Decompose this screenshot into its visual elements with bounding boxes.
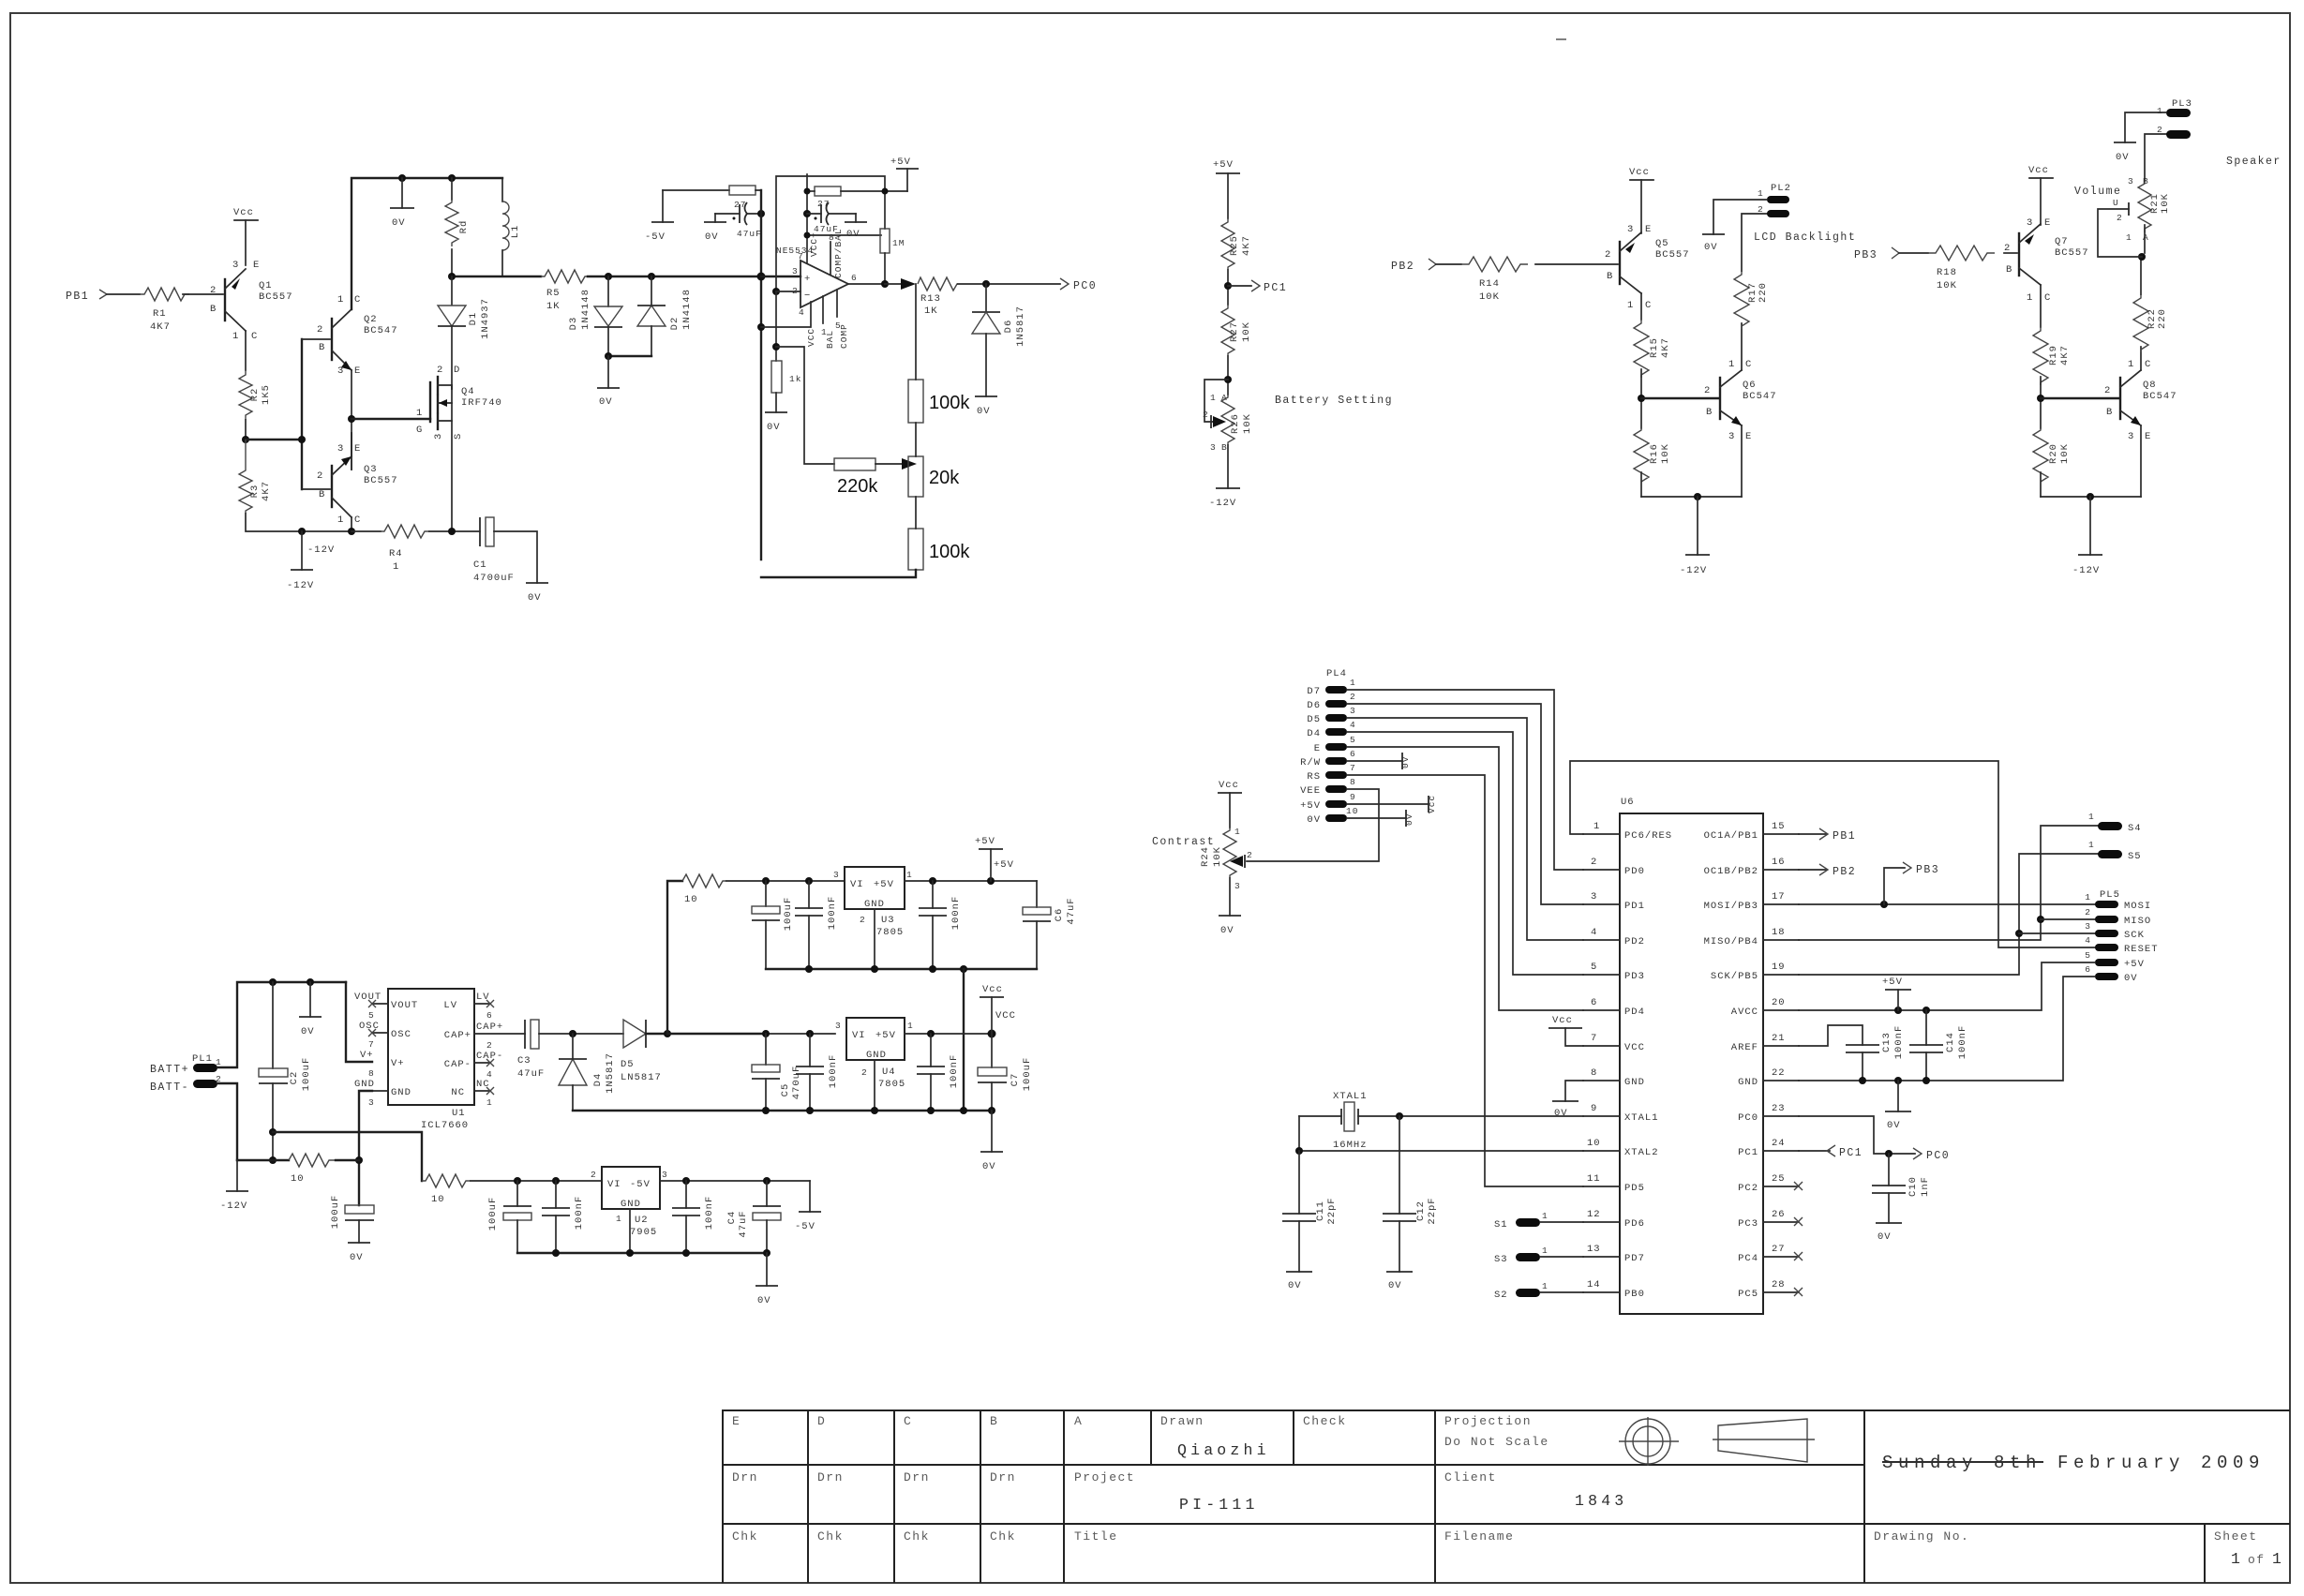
- svg-text:7: 7: [1591, 1033, 1597, 1044]
- opamp pin7 VCC+: [806, 174, 808, 263]
- svg-text:1: 1: [1758, 188, 1764, 199]
- capacitor 100nF (7905 out): [685, 1181, 687, 1208]
- capacitor C13 100nF: [1846, 1044, 1879, 1046]
- svg-text:A: A: [1221, 393, 1228, 403]
- U1 pin VOUT 5: [372, 1003, 388, 1005]
- wire -input branch down to 1k: [775, 291, 777, 361]
- wire E to PD4: [1347, 747, 1583, 1010]
- node PB1 output arrow: [1799, 833, 1826, 835]
- ground -12V (battery): [236, 1160, 238, 1191]
- wire Q6 emitter to rail: [1741, 425, 1743, 497]
- svg-text:1: 1: [232, 331, 239, 342]
- inductor L1: [501, 178, 503, 201]
- svg-text:47uF: 47uF: [737, 229, 762, 239]
- wire C2 bottom down: [272, 1083, 274, 1160]
- svg-text:Vcc: Vcc: [1219, 780, 1239, 791]
- wire pot to -12V: [1227, 445, 1229, 488]
- svg-text:Vcc: Vcc: [1629, 167, 1650, 178]
- U1 pin OSC 7: [372, 1032, 388, 1034]
- svg-text:4K7: 4K7: [261, 481, 272, 501]
- svg-text:PC4: PC4: [1738, 1253, 1758, 1264]
- svg-text:R3: R3: [249, 485, 261, 499]
- svg-text:E: E: [2044, 217, 2051, 229]
- svg-text:C3: C3: [517, 1055, 531, 1066]
- title block column B/A: [1063, 1410, 1065, 1583]
- svg-text:1: 1: [2027, 292, 2033, 304]
- svg-text:7: 7: [1350, 763, 1356, 773]
- svg-text:0V: 0V: [1400, 756, 1411, 768]
- svg-text:PC0: PC0: [1073, 280, 1097, 292]
- svg-text:Client: Client: [1444, 1470, 1497, 1484]
- title block column E/D: [807, 1410, 809, 1583]
- resistor R16 10K: [1634, 428, 1649, 482]
- svg-text:PC6/RES: PC6/RES: [1624, 830, 1672, 842]
- svg-text:RESET: RESET: [2124, 944, 2159, 955]
- svg-text:4700uF: 4700uF: [473, 573, 515, 584]
- svg-text:3: 3: [2027, 217, 2033, 229]
- svg-text:U3: U3: [881, 915, 895, 926]
- wire Q6 collector to R17: [1741, 323, 1743, 370]
- svg-text:Chk: Chk: [817, 1529, 844, 1544]
- svg-text:10K: 10K: [1937, 280, 1957, 291]
- svg-text:PD1: PD1: [1624, 901, 1645, 912]
- wire Q7 collector to R19: [2040, 285, 2042, 327]
- svg-text:-5V: -5V: [795, 1221, 815, 1232]
- capacitor 100nF (U4 out): [930, 1034, 932, 1066]
- svg-text:RS: RS: [1307, 771, 1321, 783]
- svg-text:16: 16: [1772, 857, 1786, 868]
- svg-text:5: 5: [368, 1010, 375, 1021]
- svg-text:BC557: BC557: [2055, 247, 2089, 259]
- ground 0V (100uF): [348, 1242, 370, 1244]
- svg-text:22pF: 22pF: [1326, 1197, 1338, 1224]
- U6 right pin names: [1704, 830, 1758, 1300]
- svg-text:VCC: VCC: [1624, 1042, 1645, 1053]
- svg-text:3: 3: [1728, 431, 1735, 442]
- svg-text:Q4: Q4: [461, 386, 475, 397]
- svg-text:E: E: [1645, 224, 1652, 235]
- svg-text:Chk: Chk: [990, 1529, 1016, 1544]
- wire PL3 pin1 to 0V: [2125, 112, 2166, 142]
- pot 20k: [908, 456, 923, 497]
- svg-text:2: 2: [1758, 204, 1764, 215]
- svg-text:GND: GND: [621, 1199, 641, 1210]
- svg-text:1: 1: [2231, 1550, 2244, 1568]
- svg-text:A: A: [2143, 232, 2149, 243]
- svg-text:+5V: +5V: [975, 836, 995, 847]
- node C2 top junction: [269, 978, 277, 986]
- svg-text:1: 1: [486, 1097, 493, 1108]
- wire 220k to pot arrow: [875, 463, 905, 465]
- wire U2 out: [660, 1180, 810, 1182]
- svg-text:2: 2: [1203, 410, 1209, 420]
- svg-text:LN5817: LN5817: [621, 1072, 662, 1083]
- svg-text:Q5: Q5: [1655, 238, 1669, 249]
- title block column DrawingNo/Sheet: [2204, 1524, 2206, 1583]
- svg-text:3: 3: [433, 433, 444, 440]
- node Rd top junction: [448, 174, 456, 182]
- svg-text:PL2: PL2: [1771, 183, 1791, 194]
- svg-text:Title: Title: [1074, 1529, 1118, 1544]
- svg-text:VEE: VEE: [1300, 785, 1321, 797]
- svg-text:1N5817: 1N5817: [605, 1052, 616, 1094]
- resistor R22 220: [2133, 294, 2148, 352]
- svg-text:+5V: +5V: [2124, 959, 2145, 970]
- capacitor C12 22pF: [1399, 1116, 1400, 1214]
- svg-text:COMP: COMP: [839, 323, 849, 349]
- svg-text:PI-111: PI-111: [1179, 1496, 1259, 1514]
- capacitor C1 4700uF: [479, 517, 481, 546]
- svg-text:19: 19: [1772, 962, 1786, 973]
- resistor R19 4K7: [2033, 327, 2048, 385]
- svg-text:Vcc: Vcc: [982, 984, 1003, 995]
- svg-text:3: 3: [2128, 176, 2134, 186]
- svg-text:R18: R18: [1937, 267, 1957, 278]
- svg-text:C10: C10: [1908, 1176, 1919, 1197]
- svg-text:-12V: -12V: [307, 544, 335, 556]
- svg-text:D2: D2: [669, 317, 681, 331]
- wire 0V pin to 0V: [1347, 817, 1406, 819]
- resistor R1 4K7: [140, 288, 189, 301]
- wire V1 to VCC- pin: [761, 302, 811, 327]
- wire output to ladder: [885, 283, 903, 285]
- svg-text:R16: R16: [1649, 443, 1660, 464]
- node PC0 output arrow: [1060, 278, 1069, 290]
- svg-text:+5V: +5V: [875, 1030, 896, 1041]
- svg-text:PD6: PD6: [1624, 1218, 1645, 1230]
- svg-text:470uF: 470uF: [791, 1066, 802, 1100]
- wire SCK tap: [2015, 930, 2023, 937]
- svg-text:3: 3: [337, 443, 344, 455]
- svg-text:1N4937: 1N4937: [480, 298, 491, 339]
- svg-text:D6: D6: [1307, 700, 1321, 711]
- svg-text:PC2: PC2: [1738, 1183, 1758, 1194]
- ground 0V (U6 pin8): [1565, 1081, 1583, 1101]
- svg-text:C5: C5: [780, 1083, 791, 1097]
- svg-text:3: 3: [368, 1097, 375, 1108]
- svg-text:100nF: 100nF: [1893, 1025, 1905, 1060]
- feedback rail H1: [776, 176, 885, 291]
- wire 27 right to +5V: [841, 190, 907, 192]
- wire 27 to node V1: [756, 190, 761, 214]
- svg-text:R4: R4: [389, 548, 403, 559]
- svg-text:-12V: -12V: [2072, 565, 2100, 576]
- svg-text:CAP-: CAP-: [476, 1051, 503, 1062]
- wire pot wiper to node: [2128, 202, 2130, 216]
- U1 pin GND 3: [372, 1090, 388, 1092]
- svg-text:7805: 7805: [878, 1079, 905, 1090]
- wire U3 rail to U4 rail: [963, 969, 965, 1111]
- title block outline: [723, 1410, 2290, 1583]
- svg-text:SCK/PB5: SCK/PB5: [1711, 971, 1758, 982]
- svg-text:0V: 0V: [528, 592, 542, 604]
- wire R14 to Q5 base: [1535, 263, 1618, 265]
- capacitor 100nF (U3 in): [808, 881, 810, 908]
- power -5V output: [809, 1181, 811, 1212]
- svg-text:5: 5: [1350, 735, 1356, 745]
- wire pot top to PL3 pin2: [2145, 134, 2166, 181]
- svg-text:8: 8: [1350, 777, 1356, 787]
- wire PL2 pin1 to 0V: [1713, 200, 1767, 234]
- node PC1 arrow pin24: [1799, 1150, 1830, 1152]
- svg-text:2: 2: [486, 1040, 493, 1051]
- svg-text:Q6: Q6: [1743, 380, 1757, 391]
- svg-text:1: 1: [393, 561, 399, 573]
- svg-text:C12: C12: [1415, 1201, 1427, 1221]
- svg-text:B: B: [210, 304, 217, 315]
- svg-text:Q3: Q3: [364, 464, 378, 475]
- svg-text:BC547: BC547: [1743, 391, 1777, 402]
- svg-text:1: 1: [2157, 106, 2163, 116]
- svg-text:R/W: R/W: [1300, 757, 1321, 768]
- svg-text:D1: D1: [468, 312, 479, 326]
- title block column D/C: [893, 1410, 895, 1583]
- transistor Q7 BC557: [2018, 233, 2020, 276]
- svg-text:Drn: Drn: [817, 1470, 844, 1484]
- svg-text:0V: 0V: [977, 406, 991, 417]
- IC U3 7805: [845, 867, 905, 909]
- svg-text:7805: 7805: [876, 927, 904, 938]
- transistor Q3 BC557: [331, 466, 333, 507]
- ground -12V (Q7/Q8): [2089, 497, 2091, 555]
- svg-text:2: 2: [1350, 692, 1356, 702]
- svg-text:4K7: 4K7: [2059, 345, 2071, 365]
- svg-text:MISO: MISO: [2124, 916, 2151, 927]
- svg-text:2: 2: [860, 915, 866, 925]
- svg-text:8: 8: [1591, 1067, 1597, 1079]
- svg-text:B: B: [1221, 442, 1228, 453]
- wire U1 GND path: [359, 1091, 372, 1205]
- svg-text:R13: R13: [920, 293, 941, 305]
- resistor 27 (input filter): [663, 189, 729, 191]
- IC U1 ICL7660: [388, 989, 474, 1105]
- capacitor 100nF (7905 in): [555, 1181, 557, 1208]
- node PB3 tap arrow: [1884, 868, 1905, 904]
- IC U4 7805: [846, 1018, 905, 1060]
- svg-text:C: C: [2145, 359, 2151, 370]
- svg-text:C2: C2: [289, 1071, 300, 1085]
- svg-text:E: E: [2145, 431, 2151, 442]
- wire R2 to node: [245, 420, 247, 440]
- wire U4 GND down: [874, 1060, 875, 1111]
- svg-text:7: 7: [368, 1039, 375, 1050]
- opamp pin5 COMP: [836, 290, 838, 317]
- diode D2 1N4148: [637, 305, 666, 306]
- svg-text:0V: 0V: [301, 1026, 315, 1037]
- svg-text:1: 1: [2126, 232, 2132, 243]
- transistor Q8 BC547: [2119, 378, 2121, 419]
- svg-text:R24: R24: [1200, 846, 1211, 867]
- wire RS to PD5: [1347, 775, 1583, 1186]
- wire XTAL2: [1299, 1116, 1583, 1151]
- svg-text:0V: 0V: [599, 396, 613, 408]
- title block column C/B: [980, 1410, 981, 1583]
- wire R15 to Q6 base node: [1640, 369, 1642, 428]
- svg-text:100nF: 100nF: [827, 896, 838, 931]
- capacitor 100uF (on -12V): [345, 1205, 374, 1214]
- svg-text:BC557: BC557: [1655, 249, 1690, 261]
- top centre tick mark: [1556, 38, 1566, 40]
- svg-text:C14: C14: [1945, 1032, 1956, 1052]
- svg-text:10: 10: [291, 1173, 305, 1185]
- transistor Q5 BC557: [1619, 242, 1621, 284]
- ground 0V (pin22): [1897, 1081, 1899, 1111]
- pot R21 10K volume: [2138, 181, 2151, 232]
- svg-text:3: 3: [2128, 431, 2134, 442]
- svg-text:0V: 0V: [767, 422, 781, 433]
- svg-text:17: 17: [1772, 891, 1786, 902]
- diode D4 1N5817: [559, 1058, 587, 1060]
- svg-text:B: B: [1706, 407, 1713, 418]
- wire Q2 collector to top rail: [352, 178, 502, 309]
- svg-text:10K: 10K: [1212, 846, 1223, 867]
- svg-text:6: 6: [1350, 749, 1356, 759]
- svg-text:AREF: AREF: [1731, 1042, 1758, 1053]
- svg-text:-12V: -12V: [220, 1201, 247, 1212]
- svg-text:1: 1: [2085, 892, 2091, 902]
- svg-text:1: 1: [616, 1214, 622, 1224]
- svg-text:100uF: 100uF: [1022, 1057, 1033, 1092]
- wire U3 0V rail: [766, 968, 1037, 970]
- PL4 pin numbers: [1346, 678, 1358, 816]
- svg-text:1k: 1k: [789, 374, 801, 384]
- svg-text:-5V: -5V: [630, 1179, 651, 1190]
- svg-text:1N4148: 1N4148: [681, 289, 693, 330]
- svg-text:2: 2: [210, 285, 217, 296]
- svg-text:B: B: [2106, 407, 2113, 418]
- svg-text:2: 2: [1704, 385, 1711, 396]
- svg-text:E: E: [1314, 743, 1321, 754]
- svg-text:A: A: [1074, 1414, 1083, 1428]
- wire SCK/PB5 to S5: [1799, 854, 2098, 975]
- svg-text:47uF: 47uF: [517, 1068, 545, 1080]
- svg-text:1: 1: [337, 294, 344, 306]
- svg-text:-12V: -12V: [1680, 565, 1707, 576]
- svg-text:3: 3: [1210, 442, 1217, 453]
- svg-text:S4: S4: [2128, 823, 2142, 834]
- projection symbol cone: [1718, 1419, 1807, 1462]
- resistor R5 1K: [541, 270, 588, 283]
- svg-text:23: 23: [1772, 1103, 1786, 1114]
- wire to U3 VI: [726, 880, 845, 882]
- svg-text:S: S: [453, 433, 464, 440]
- wire BATT- to -12V rail: [217, 1083, 237, 1160]
- svg-text:100nF: 100nF: [704, 1196, 715, 1231]
- svg-text:28: 28: [1772, 1279, 1786, 1290]
- transistor Q1 BC557: [224, 279, 226, 321]
- wire VEE to contrast wiper: [1247, 789, 1379, 861]
- svg-text:13: 13: [1587, 1244, 1601, 1255]
- svg-text:Battery Setting: Battery Setting: [1275, 395, 1393, 407]
- svg-text:U4: U4: [882, 1066, 896, 1078]
- svg-text:1: 1: [1234, 827, 1241, 837]
- svg-text:E: E: [253, 260, 260, 271]
- svg-text:1: 1: [2088, 840, 2095, 850]
- svg-text:B: B: [990, 1414, 998, 1428]
- svg-text:16MHz: 16MHz: [1333, 1140, 1368, 1151]
- ground 0V (U2 rail): [766, 1253, 768, 1286]
- capacitor 100nF (U4 in): [809, 1034, 811, 1066]
- wire Q5 collector to R15: [1640, 293, 1642, 320]
- svg-text:B: B: [1607, 271, 1613, 282]
- svg-text:10K: 10K: [1479, 291, 1500, 303]
- svg-text:-5V: -5V: [645, 231, 666, 243]
- svg-text:0V: 0V: [1554, 1108, 1568, 1119]
- svg-text:+: +: [804, 274, 811, 285]
- svg-text:4K7: 4K7: [150, 321, 171, 333]
- wire +5V pin to Vcc: [1347, 803, 1429, 805]
- svg-text:D: D: [817, 1414, 826, 1428]
- svg-text:LV: LV: [443, 1000, 457, 1011]
- ground 0V (opamp cap): [855, 214, 857, 222]
- svg-text:BC547: BC547: [2143, 391, 2177, 402]
- U6 right pin numbers: [1772, 821, 1786, 1290]
- svg-text:PB2: PB2: [1833, 866, 1856, 878]
- wire rail Q5/Q6: [1641, 496, 1742, 498]
- svg-text:L1: L1: [510, 225, 521, 239]
- wire U4 out to Vcc: [905, 1033, 992, 1035]
- svg-text:Qiaozhi: Qiaozhi: [1177, 1441, 1270, 1459]
- capacitor 100nF (U3 out): [932, 881, 934, 908]
- svg-text:Q8: Q8: [2143, 380, 2157, 391]
- svg-text:2: 2: [317, 324, 323, 336]
- svg-text:R14: R14: [1479, 278, 1500, 290]
- resistor R20 10K: [2033, 428, 2048, 482]
- svg-text:Drn: Drn: [732, 1470, 758, 1484]
- wire node to Q2/Q3 bases: [246, 439, 302, 440]
- svg-text:PD4: PD4: [1624, 1007, 1645, 1018]
- wire R18 to Q7 base: [2004, 252, 2017, 254]
- title block column Projection/Date: [1863, 1410, 1865, 1583]
- svg-text:0V: 0V: [1878, 1231, 1892, 1243]
- svg-text:5: 5: [2085, 950, 2091, 961]
- svg-text:PD5: PD5: [1624, 1183, 1645, 1194]
- svg-text:1: 1: [906, 870, 913, 880]
- ground -12V symbol: [301, 531, 303, 570]
- svg-text:BATT-: BATT-: [150, 1081, 189, 1094]
- svg-text:4K7: 4K7: [1241, 235, 1252, 256]
- svg-text:4: 4: [2085, 935, 2091, 946]
- capacitor C3 47uF: [524, 1033, 526, 1035]
- wire PB1 to R1: [107, 293, 140, 295]
- svg-text:R26: R26: [1230, 413, 1241, 434]
- svg-text:Drn: Drn: [990, 1470, 1016, 1484]
- svg-text:+5V: +5V: [994, 859, 1014, 871]
- ground 0V (D3/D2): [607, 356, 609, 388]
- svg-text:OC1B/PB2: OC1B/PB2: [1704, 866, 1758, 877]
- svg-text:Speaker: Speaker: [2226, 156, 2282, 168]
- svg-text:10: 10: [684, 894, 698, 905]
- svg-text:CAP-: CAP-: [444, 1059, 471, 1070]
- svg-text:Filename: Filename: [1444, 1529, 1514, 1544]
- wire R/W to 0V: [1347, 760, 1402, 762]
- svg-text:VI: VI: [607, 1179, 621, 1190]
- svg-text:12: 12: [1587, 1209, 1601, 1220]
- svg-text:8: 8: [368, 1068, 375, 1079]
- svg-text:S5: S5: [2128, 851, 2142, 862]
- node PC1 tap: [1228, 285, 1251, 287]
- svg-text:7: 7: [798, 251, 804, 261]
- node top rail 0V junction: [398, 174, 406, 182]
- svg-text:PB3: PB3: [1854, 249, 1878, 261]
- wire GND pin22 to PL5 0V: [1799, 977, 2095, 1081]
- svg-text:0V: 0V: [392, 217, 406, 229]
- svg-text:3: 3: [2085, 921, 2091, 932]
- wire +input line to opamp: [761, 276, 800, 277]
- svg-text:PD0: PD0: [1624, 866, 1645, 877]
- svg-text:2: 2: [1591, 857, 1597, 868]
- svg-text:1: 1: [1627, 300, 1634, 311]
